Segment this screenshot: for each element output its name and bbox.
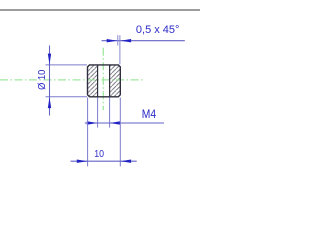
10 dim: left arrow (right-pointing) xyxy=(77,160,88,163)
threaded hole right wall xyxy=(109,65,111,96)
chamfer dim: long extension to part corner xyxy=(119,35,121,64)
toolbar divider gray line xyxy=(0,9,200,11)
part outline with chamfered corners xyxy=(88,65,121,97)
chamfer dim: left arrow (right-pointing) xyxy=(107,39,118,42)
centerline horizontal green xyxy=(0,79,144,81)
dimension Ø10: top extension line xyxy=(46,64,88,66)
M4 dim: right arrow (left-pointing) xyxy=(110,121,121,124)
10 dim: right extension line xyxy=(119,98,121,167)
M4 dim: dimension line xyxy=(85,122,164,124)
hatch right section of part xyxy=(110,66,120,97)
10 dim: left extension line xyxy=(87,98,89,167)
svg-text:M4: M4 xyxy=(142,108,156,121)
M4 dim: right extension line xyxy=(109,97,111,127)
dimension Ø10: dimension line xyxy=(49,46,51,116)
dimension Ø10: top arrow (down) xyxy=(48,54,51,65)
dimension Ø10: bottom arrow (up) xyxy=(48,97,51,108)
chamfer dim: short tick extension xyxy=(117,35,119,45)
10 dim: right arrow (left-pointing) xyxy=(120,160,131,163)
hatch left section of part xyxy=(88,66,97,97)
chamfer dim: dimension line xyxy=(102,40,185,42)
centerline vertical green xyxy=(102,48,104,110)
M4 dim: left extension line (hole wall projection) xyxy=(97,97,99,127)
threaded hole left wall xyxy=(97,65,99,96)
M4 dim: left arrow (right-pointing) xyxy=(87,121,98,124)
chamfer dim: right arrow (left-pointing) xyxy=(120,39,131,42)
10 dim: dimension line xyxy=(71,160,137,162)
svg-text:Ø 10: Ø 10 xyxy=(37,69,49,90)
svg-text:0,5 x 45°: 0,5 x 45° xyxy=(136,24,180,36)
svg-text:10: 10 xyxy=(94,148,104,160)
dimension Ø10: bottom extension line xyxy=(46,96,88,98)
